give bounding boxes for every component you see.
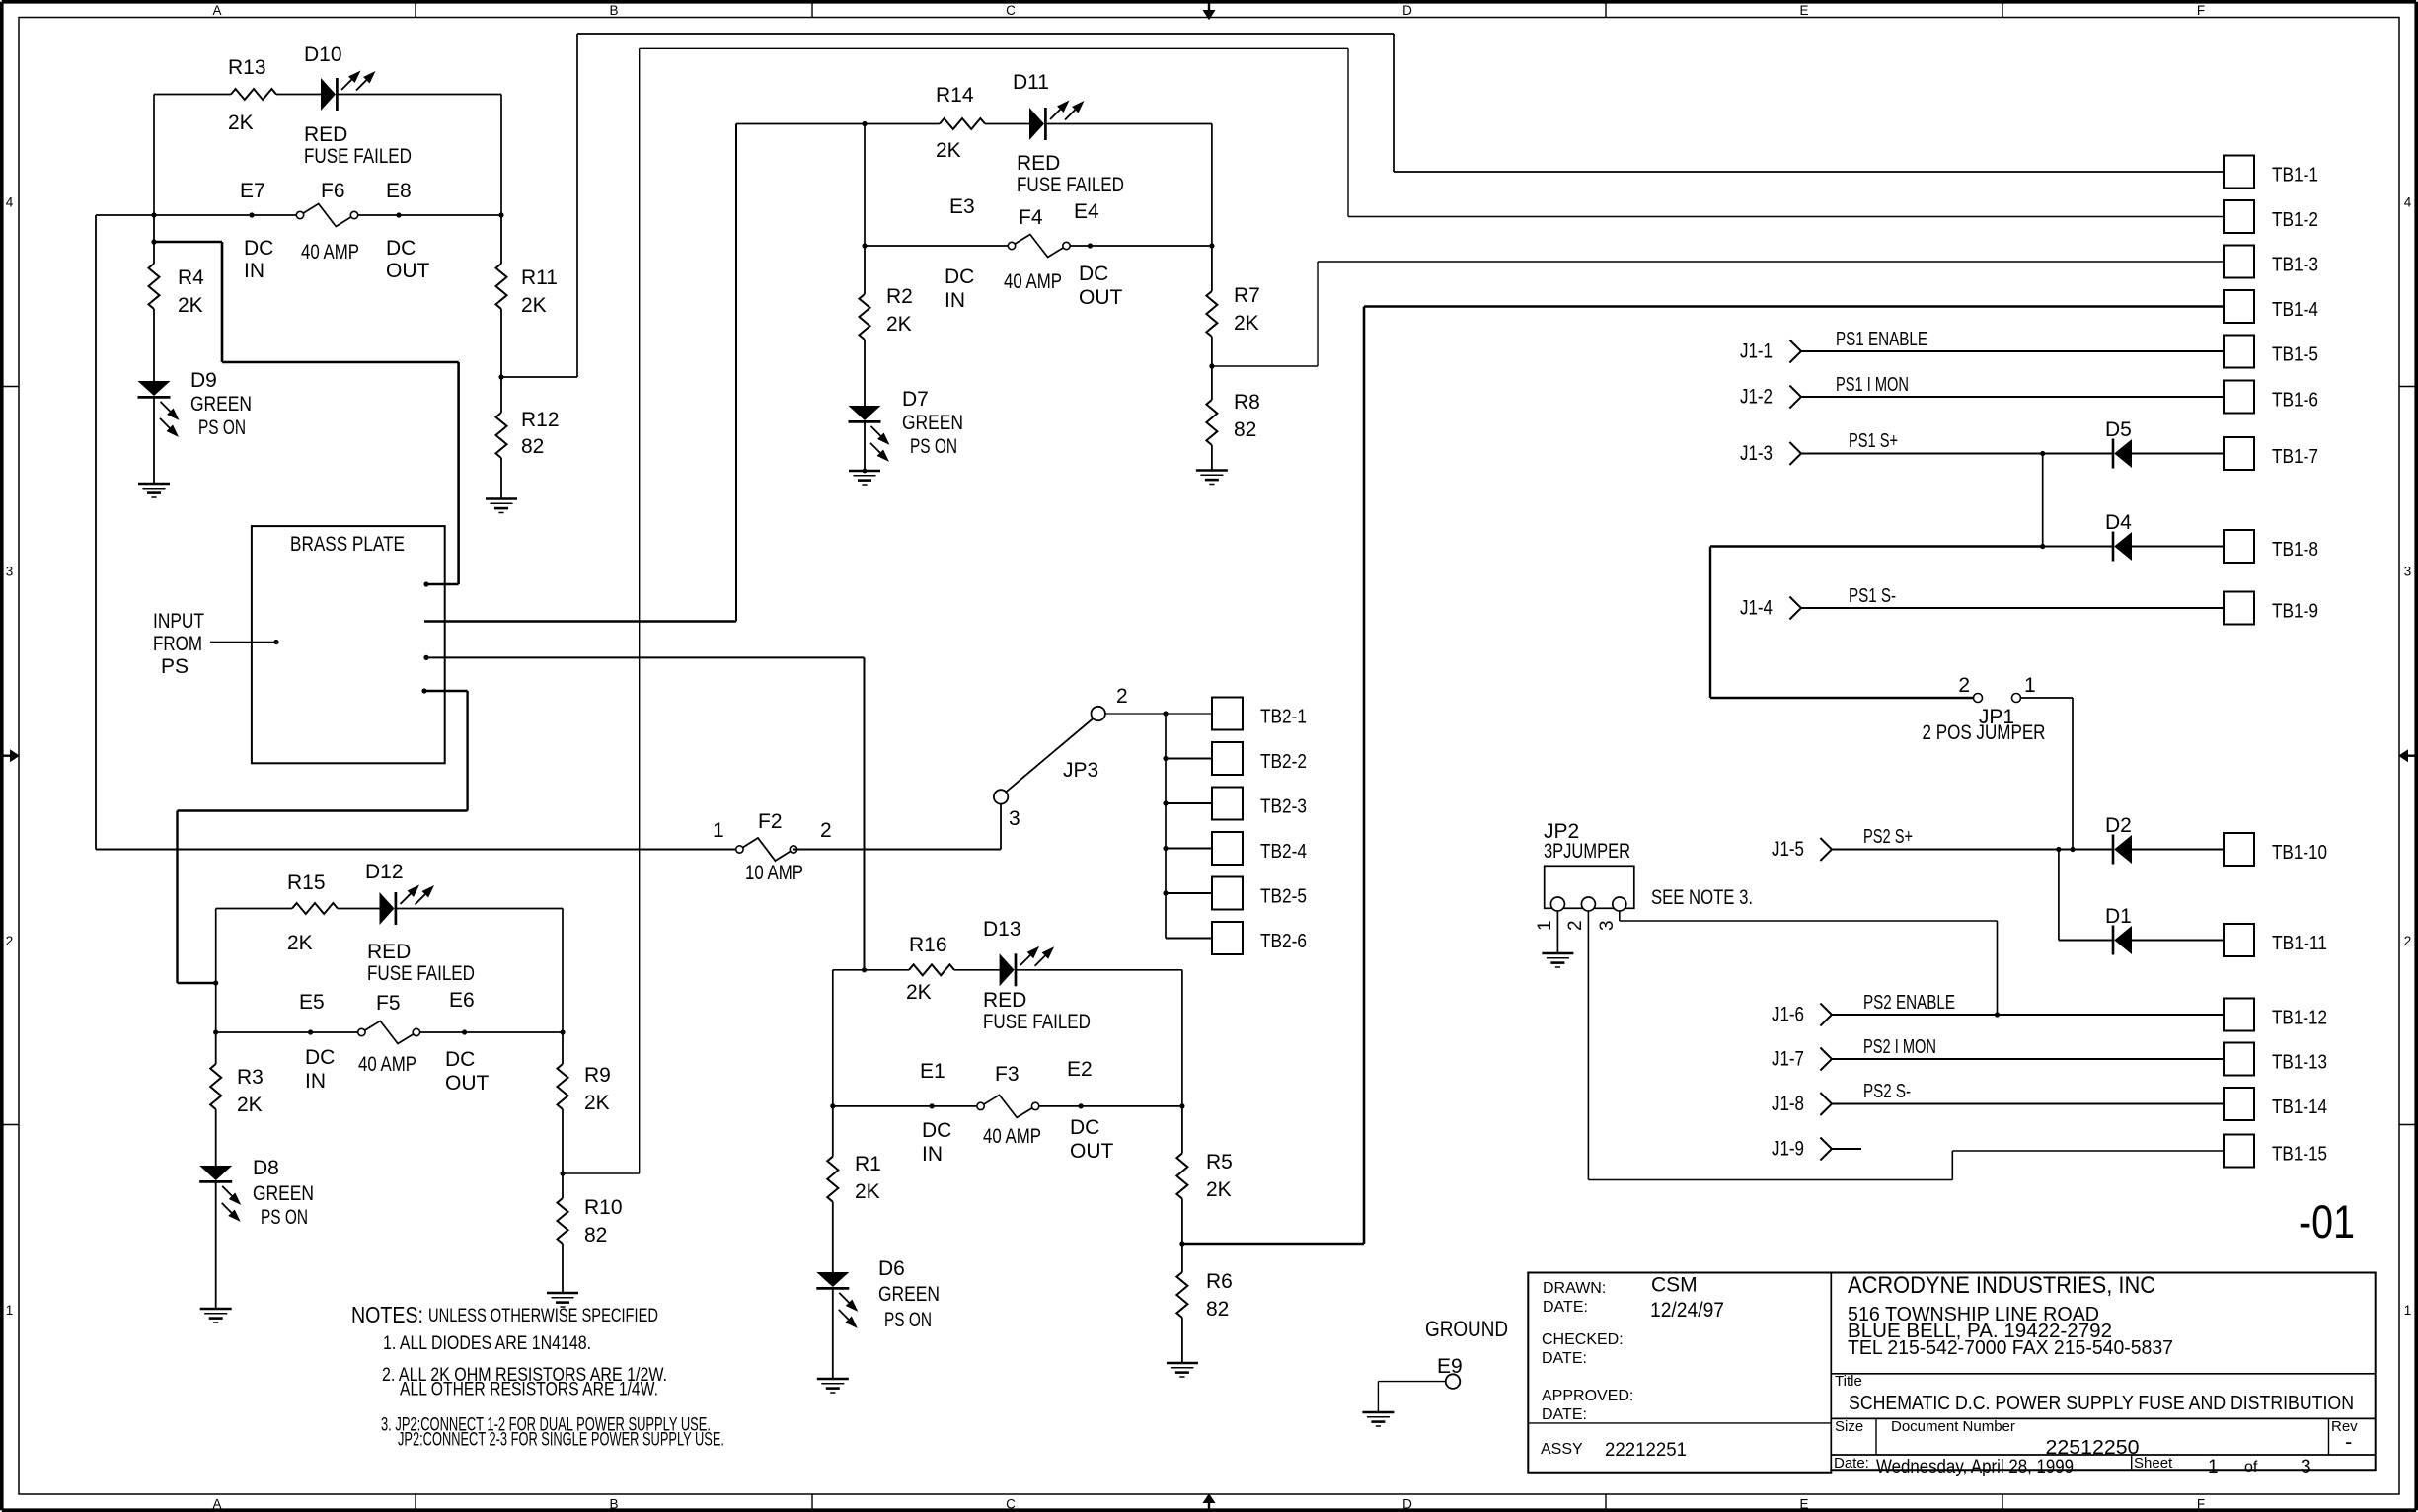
svg-text:E8: E8 — [386, 180, 412, 202]
svg-text:JP3: JP3 — [1063, 759, 1098, 782]
svg-text:E4: E4 — [1074, 200, 1099, 223]
svg-text:1: 1 — [6, 1303, 14, 1318]
node E6 — [445, 989, 490, 1095]
svg-text:TB1-1: TB1-1 — [2272, 165, 2318, 187]
svg-text:J1-4: J1-4 — [1740, 597, 1773, 620]
svg-text:TEL 215-542-7000 FAX 215-540-5: TEL 215-542-7000 FAX 215-540-5837 — [1848, 1337, 2173, 1359]
net PS2 S- — [1832, 1081, 2224, 1104]
resistor R10 — [558, 1173, 623, 1247]
net PS2 I MON — [1832, 1036, 2224, 1059]
svg-text:3: 3 — [2301, 1457, 2311, 1477]
title address — [1848, 1304, 2173, 1359]
svg-text:TB1-9: TB1-9 — [2272, 601, 2318, 623]
svg-text:PS2 S-: PS2 S- — [1863, 1081, 1911, 1102]
svg-text:PS1 S+: PS1 S+ — [1849, 430, 1898, 452]
terminal TB1-9 — [2224, 592, 2318, 625]
node E8 — [386, 180, 430, 282]
node E4 — [1074, 200, 1123, 309]
svg-text:SEE NOTE 3.: SEE NOTE 3. — [1651, 886, 1753, 909]
svg-text:PS ON: PS ON — [198, 416, 246, 439]
jumper JP1 — [1710, 674, 2046, 744]
net PS1 S+ — [1801, 430, 2043, 454]
node R7-R8 — [1209, 337, 1214, 369]
svg-text:TB1-5: TB1-5 — [2272, 344, 2318, 366]
svg-text:GREEN: GREEN — [902, 412, 963, 434]
svg-text:2K: 2K — [178, 294, 203, 317]
wire — [863, 422, 868, 474]
node DC IN 1 — [151, 215, 156, 264]
node TB2 bus — [1163, 711, 1168, 938]
svg-text:PS: PS — [161, 655, 189, 678]
fuse F4 — [1004, 206, 1070, 293]
svg-text:2K: 2K — [855, 1180, 880, 1203]
node input — [210, 640, 279, 644]
net PS1 S- — [1801, 585, 2224, 608]
svg-text:R6: R6 — [1206, 1270, 1233, 1293]
svg-text:FUSE FAILED: FUSE FAILED — [983, 1011, 1091, 1033]
net PS2 S+ — [1832, 826, 2059, 850]
rev cell — [2331, 1418, 2358, 1454]
svg-text:1: 1 — [713, 819, 724, 842]
svg-text:GROUND: GROUND — [1425, 1317, 1508, 1341]
connector J1-4 — [1740, 597, 1801, 620]
fuse F2 — [713, 810, 832, 884]
svg-text:ALL OTHER RESISTORS ARE 1/4W.: ALL OTHER RESISTORS ARE 1/4W. — [400, 1379, 658, 1400]
svg-text:PS2 S+: PS2 S+ — [1863, 826, 1913, 848]
svg-text:D1: D1 — [2105, 905, 2132, 928]
LED D12 — [365, 861, 475, 985]
wire — [96, 214, 154, 216]
svg-text:3: 3 — [2404, 565, 2412, 579]
wire — [2021, 698, 2074, 850]
wire — [832, 1289, 834, 1380]
wire — [154, 242, 459, 362]
label GROUND — [1425, 1317, 1508, 1341]
wire TB1-8 net — [1710, 547, 2043, 699]
wire — [1556, 911, 1558, 953]
svg-text:TB1-3: TB1-3 — [2272, 255, 2318, 276]
diode D5 — [2105, 418, 2132, 469]
svg-text:B: B — [609, 3, 618, 18]
svg-text:D10: D10 — [304, 43, 342, 66]
wire — [735, 124, 737, 622]
svg-text:B: B — [609, 1497, 618, 1512]
svg-text:DATE:: DATE: — [1542, 1350, 1587, 1367]
node fuse row 4 — [830, 1103, 1184, 1108]
svg-text:RED: RED — [367, 941, 411, 963]
node TB2-3 — [1163, 800, 1212, 805]
note 2 — [382, 1364, 667, 1400]
wire JP2-3 net — [1620, 911, 1998, 1015]
svg-text:E5: E5 — [299, 991, 325, 1014]
node D4 junction — [2040, 544, 2113, 549]
svg-text:JP2:CONNECT 2-3 FOR SINGLE POW: JP2:CONNECT 2-3 FOR SINGLE POWER SUPPLY … — [398, 1429, 724, 1451]
svg-text:TB1-8: TB1-8 — [2272, 539, 2318, 561]
svg-text:R8: R8 — [1234, 391, 1260, 414]
svg-text:OUT: OUT — [386, 260, 430, 282]
svg-text:E2: E2 — [1067, 1058, 1093, 1081]
svg-text:TB1-14: TB1-14 — [2272, 1096, 2327, 1118]
svg-text:Size: Size — [1835, 1418, 1863, 1435]
wire — [1016, 970, 1182, 1106]
svg-text:RED: RED — [304, 123, 347, 146]
svg-text:RED: RED — [983, 989, 1026, 1012]
label SEE NOTE 3. — [1651, 886, 1753, 909]
terminal TB1-12 — [2224, 999, 2327, 1031]
svg-text:PS2 ENABLE: PS2 ENABLE — [1863, 992, 1955, 1014]
svg-text:3: 3 — [6, 565, 14, 579]
node brass pin4 — [421, 688, 467, 693]
svg-text:J1-3: J1-3 — [1740, 442, 1773, 465]
svg-text:10 AMP: 10 AMP — [745, 862, 803, 884]
svg-text:40 AMP: 40 AMP — [1004, 270, 1062, 293]
node E9 — [1378, 1355, 1462, 1412]
svg-text:J1-8: J1-8 — [1772, 1093, 1804, 1115]
svg-text:1: 1 — [2208, 1457, 2219, 1477]
svg-text:DRAWN:: DRAWN: — [1543, 1280, 1606, 1297]
size cell — [1835, 1418, 1863, 1435]
diode D2 — [2105, 814, 2132, 865]
svg-text:D5: D5 — [2105, 418, 2132, 441]
svg-text:FROM: FROM — [153, 633, 202, 655]
wire — [178, 691, 468, 983]
wire — [153, 95, 155, 216]
svg-text:3: 3 — [1009, 807, 1020, 830]
terminal TB2-3 — [1212, 788, 1307, 820]
svg-text:F: F — [2197, 1497, 2205, 1512]
terminal TB2-6 — [1212, 922, 1307, 954]
connector J1-1 — [1740, 340, 1801, 363]
LED D11 — [1013, 71, 1124, 196]
node brass pin3 — [423, 655, 864, 660]
connector J1-3 — [1740, 442, 1801, 465]
svg-text:F2: F2 — [758, 810, 783, 833]
resistor R13 — [228, 56, 276, 134]
wire — [833, 969, 1000, 971]
svg-text:DC: DC — [922, 1119, 951, 1142]
svg-text:PS ON: PS ON — [261, 1206, 308, 1229]
node E3 — [945, 195, 975, 312]
svg-text:2K: 2K — [1206, 1178, 1232, 1201]
node fuse row 3 — [213, 1029, 566, 1034]
svg-text:4: 4 — [2404, 195, 2412, 210]
svg-text:DC: DC — [1070, 1116, 1099, 1139]
title block — [1528, 1273, 2375, 1473]
label INPUT FROM PS — [153, 610, 204, 678]
wire — [1105, 713, 1212, 715]
terminal TB1-8 — [2224, 530, 2318, 563]
terminal TB1-10 — [2224, 833, 2327, 866]
svg-text:R9: R9 — [584, 1064, 611, 1087]
svg-text:A: A — [212, 3, 221, 18]
fuse F3 — [977, 1063, 1041, 1148]
resistor R6 — [1176, 1244, 1232, 1321]
wire — [457, 362, 460, 584]
svg-text:TB1-13: TB1-13 — [2272, 1052, 2327, 1074]
sheet cell — [2134, 1455, 2311, 1477]
svg-text:F3: F3 — [995, 1063, 1020, 1086]
ground — [1542, 953, 1573, 967]
svg-text:PS2 I MON: PS2 I MON — [1863, 1036, 1936, 1058]
svg-text:2K: 2K — [1234, 312, 1259, 335]
svg-text:2K: 2K — [237, 1094, 263, 1116]
resistor R8 — [1206, 366, 1259, 445]
svg-text:F: F — [2197, 3, 2205, 18]
svg-text:1. ALL DIODES ARE 1N4148.: 1. ALL DIODES ARE 1N4148. — [383, 1332, 591, 1354]
node D2 junction — [2056, 847, 2113, 941]
svg-text:R10: R10 — [584, 1196, 623, 1219]
svg-text:R7: R7 — [1234, 284, 1260, 307]
terminal TB1-5 — [2224, 336, 2318, 368]
diode D1 — [2105, 905, 2132, 955]
svg-text:APPROVED:: APPROVED: — [1542, 1388, 1633, 1404]
svg-text:1: 1 — [2024, 674, 2036, 697]
svg-text:BRASS PLATE: BRASS PLATE — [290, 533, 405, 556]
wire — [216, 908, 380, 910]
connector J1-8 — [1772, 1093, 1832, 1115]
node E2 — [1067, 1058, 1114, 1163]
node TB2-2 — [1163, 756, 1212, 761]
LED D8 — [199, 1157, 314, 1229]
resistor R7 — [1206, 246, 1259, 337]
svg-text:D2: D2 — [2105, 814, 2132, 837]
svg-text:PS1 ENABLE: PS1 ENABLE — [1836, 329, 1927, 350]
terminal TB1-13 — [2224, 1043, 2327, 1076]
svg-text:2K: 2K — [287, 932, 313, 954]
svg-text:PS1 S-: PS1 S- — [1849, 585, 1896, 607]
wire — [2132, 848, 2224, 850]
terminal TB1-14 — [2224, 1088, 2327, 1120]
resistor R5 — [1176, 1106, 1232, 1201]
svg-text:FUSE FAILED: FUSE FAILED — [367, 962, 475, 985]
net PS2 ENABLE — [1832, 992, 2224, 1015]
LED D6 — [816, 1257, 940, 1331]
terminal TB1-6 — [2224, 381, 2318, 414]
node TB2-5 — [1163, 890, 1212, 895]
resistor R1 — [827, 1106, 881, 1203]
resistor R15 — [287, 871, 338, 954]
svg-text:82: 82 — [1206, 1298, 1229, 1321]
svg-text:2: 2 — [1116, 685, 1128, 708]
wire — [500, 458, 502, 499]
svg-text:DC: DC — [244, 237, 273, 260]
terminal TB1-4 — [2224, 290, 2318, 323]
svg-text:2K: 2K — [936, 139, 961, 162]
terminal TB2-2 — [1212, 742, 1307, 775]
svg-text:R15: R15 — [287, 871, 326, 894]
svg-text:22212251: 22212251 — [1605, 1439, 1687, 1461]
wire — [154, 94, 321, 96]
svg-text:DC: DC — [305, 1046, 335, 1069]
connector J1-6 — [1772, 1004, 1832, 1026]
svg-text:D: D — [1402, 3, 1412, 18]
svg-text:IN: IN — [945, 289, 965, 312]
wire — [215, 1109, 217, 1166]
svg-text:CSM: CSM — [1651, 1274, 1698, 1297]
svg-text:TB2-5: TB2-5 — [1260, 886, 1307, 908]
node rail 2 — [862, 121, 867, 246]
svg-text:PS1 I MON: PS1 I MON — [1836, 374, 1909, 396]
wire — [1211, 445, 1213, 471]
svg-text:TB2-2: TB2-2 — [1260, 751, 1307, 773]
svg-text:TB1-10: TB1-10 — [2272, 842, 2327, 864]
svg-text:J1-7: J1-7 — [1772, 1048, 1804, 1071]
svg-text:2: 2 — [2404, 934, 2412, 948]
wire — [396, 909, 563, 1033]
svg-text:2: 2 — [1958, 674, 1970, 697]
svg-text:DATE:: DATE: — [1542, 1406, 1587, 1423]
wire — [153, 309, 155, 381]
svg-text:D12: D12 — [365, 861, 404, 883]
terminal TB1-3 — [2224, 246, 2318, 278]
svg-text:TB1-6: TB1-6 — [2272, 390, 2318, 412]
LED D10 — [304, 43, 412, 168]
svg-text:TB2-1: TB2-1 — [1260, 707, 1307, 728]
svg-text:82: 82 — [521, 435, 544, 458]
svg-text:2K: 2K — [906, 981, 932, 1004]
svg-text:F6: F6 — [321, 180, 345, 202]
svg-text:2K: 2K — [521, 294, 547, 317]
svg-text:DATE:: DATE: — [1543, 1299, 1588, 1316]
ground — [1362, 1412, 1394, 1426]
resistor R14 — [936, 84, 985, 162]
node R11-R12 — [498, 309, 503, 380]
node brass tap — [213, 980, 218, 985]
svg-text:OUT: OUT — [445, 1072, 490, 1095]
svg-text:SCHEMATIC D.C. POWER SUPPLY FU: SCHEMATIC D.C. POWER SUPPLY FUSE AND DIS… — [1849, 1393, 2354, 1414]
resistor R11 — [496, 215, 558, 317]
wire — [864, 340, 866, 406]
svg-text:R4: R4 — [178, 266, 204, 289]
svg-text:UNLESS OTHERWISE SPECIFIED: UNLESS OTHERWISE SPECIFIED — [428, 1305, 658, 1326]
wire — [1046, 124, 1212, 247]
svg-text:F5: F5 — [376, 992, 401, 1015]
svg-text:J1-5: J1-5 — [1772, 838, 1804, 861]
svg-text:2K: 2K — [228, 112, 254, 134]
svg-text:TB1-12: TB1-12 — [2272, 1008, 2327, 1029]
wire brass pin2 — [424, 620, 736, 622]
ground — [849, 471, 880, 485]
svg-text:40 AMP: 40 AMP — [301, 241, 359, 264]
jumper JP3 — [994, 685, 1128, 850]
title block left column — [1541, 1274, 1724, 1462]
svg-text:R14: R14 — [936, 84, 974, 107]
ground — [138, 484, 170, 497]
node D5 junction — [2040, 451, 2113, 547]
wire — [1166, 937, 1212, 939]
net PS1 I MON — [1801, 374, 2224, 397]
svg-text:J1-6: J1-6 — [1772, 1004, 1804, 1026]
diode D4 — [2105, 511, 2132, 562]
title label — [1835, 1373, 1862, 1390]
svg-text:3: 3 — [1597, 920, 1618, 931]
svg-text:2K: 2K — [584, 1092, 610, 1114]
terminal TB2-1 — [1212, 698, 1307, 730]
wire — [2132, 452, 2224, 454]
svg-text:D11: D11 — [1013, 71, 1049, 94]
svg-text:ASSY: ASSY — [1541, 1441, 1583, 1458]
svg-text:TB1-7: TB1-7 — [2272, 446, 2318, 468]
wire — [793, 848, 1001, 850]
svg-text:40 AMP: 40 AMP — [983, 1125, 1041, 1148]
svg-text:D9: D9 — [190, 369, 217, 392]
ground — [547, 1293, 578, 1307]
svg-text:DC: DC — [386, 237, 416, 260]
node TB2-4 — [1163, 846, 1212, 851]
resistor R2 — [860, 246, 913, 340]
svg-text:2: 2 — [820, 819, 832, 842]
node fuse row 2 — [862, 243, 1214, 248]
date cell — [1834, 1455, 2074, 1477]
svg-text:PS ON: PS ON — [884, 1309, 932, 1331]
svg-text:D7: D7 — [902, 388, 929, 411]
svg-text:IN: IN — [244, 260, 264, 282]
svg-text:R5: R5 — [1206, 1151, 1233, 1173]
node JP2-3 junction — [1995, 1012, 2000, 1017]
connector J1-5 — [1772, 838, 1832, 861]
wire TB1-3 net — [1212, 262, 2224, 366]
svg-text:NOTES:: NOTES: — [351, 1302, 423, 1327]
svg-text:4: 4 — [6, 195, 14, 210]
terminal TB1-1 — [2224, 156, 2318, 189]
svg-text:TB2-6: TB2-6 — [1260, 931, 1307, 952]
svg-text:GREEN: GREEN — [878, 1283, 940, 1306]
svg-text:2: 2 — [6, 934, 14, 948]
svg-text:FUSE FAILED: FUSE FAILED — [304, 145, 412, 168]
svg-text:GREEN: GREEN — [253, 1182, 314, 1205]
LED D7 — [849, 388, 964, 462]
svg-text:3PJUMPER: 3PJUMPER — [1544, 840, 1630, 863]
svg-text:Sheet: Sheet — [2134, 1455, 2173, 1472]
svg-text:A: A — [212, 1497, 221, 1512]
svg-text:TB2-3: TB2-3 — [1260, 796, 1307, 818]
wire — [864, 657, 866, 969]
wire — [2132, 545, 2224, 547]
svg-text:IN: IN — [305, 1070, 326, 1093]
LED D13 — [983, 918, 1091, 1033]
wire — [2059, 939, 2113, 941]
svg-text:TB1-4: TB1-4 — [2272, 299, 2318, 321]
svg-text:J1-2: J1-2 — [1740, 386, 1773, 409]
node R5-R6 — [1179, 1199, 1184, 1247]
svg-text:D13: D13 — [983, 918, 1021, 941]
svg-text:D4: D4 — [2105, 511, 2132, 534]
svg-text:C: C — [1006, 1497, 1016, 1512]
connector J1-7 — [1772, 1048, 1832, 1071]
svg-text:E6: E6 — [449, 989, 475, 1012]
node E5 — [299, 991, 335, 1093]
label NOTES — [351, 1302, 658, 1327]
wire — [215, 909, 217, 1033]
svg-text:R3: R3 — [237, 1066, 264, 1089]
node E7 — [240, 180, 273, 282]
svg-text:DC: DC — [445, 1048, 475, 1071]
ground — [1196, 471, 1228, 485]
svg-text:INPUT: INPUT — [153, 610, 204, 633]
node E1 — [920, 1060, 951, 1166]
svg-text:CHECKED:: CHECKED: — [1542, 1331, 1624, 1348]
terminal TB1-15 — [2224, 1135, 2327, 1168]
svg-text:E1: E1 — [920, 1060, 945, 1083]
svg-text:R12: R12 — [521, 409, 560, 431]
node R9-R10 — [560, 1109, 565, 1176]
svg-text:82: 82 — [1234, 418, 1256, 441]
svg-text:22512250: 22512250 — [2046, 1437, 2140, 1459]
wire — [832, 970, 834, 1106]
LED D9 — [138, 369, 253, 439]
svg-text:DC: DC — [1079, 263, 1108, 285]
svg-text:Date:: Date: — [1834, 1455, 1869, 1472]
